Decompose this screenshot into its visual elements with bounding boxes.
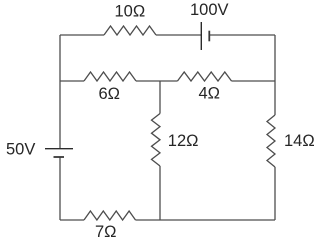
svg-text:50V: 50V — [6, 141, 35, 159]
svg-text:14Ω: 14Ω — [284, 132, 315, 150]
svg-text:7Ω: 7Ω — [95, 223, 117, 241]
svg-text:4Ω: 4Ω — [199, 85, 221, 103]
svg-text:12Ω: 12Ω — [168, 132, 199, 150]
svg-text:100V: 100V — [190, 1, 229, 19]
svg-text:6Ω: 6Ω — [99, 85, 121, 103]
svg-text:10Ω: 10Ω — [115, 3, 146, 21]
